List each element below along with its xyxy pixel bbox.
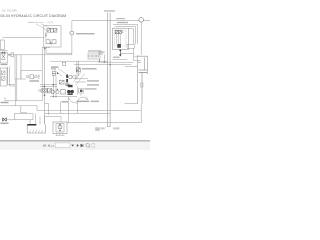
return left risers	[77, 101, 79, 113]
toolbar separator	[0, 139, 150, 142]
junction box right	[127, 44, 134, 48]
pump suction line	[50, 96, 77, 98]
lower return hose	[37, 106, 141, 111]
pilot bundle lines	[113, 59, 128, 61]
long hose mid	[50, 60, 108, 62]
label box control valve	[88, 53, 100, 59]
pilot bundle line c	[74, 64, 131, 66]
manifold side marks	[122, 31, 124, 32]
inline circle on hose	[8, 54, 10, 56]
right drop to drain	[140, 104, 142, 123]
manifold valve square b	[118, 30, 121, 33]
svg-text:No. TXL-045: No. TXL-045	[2, 9, 17, 13]
pump unit bottom dot	[59, 130, 60, 131]
manifold internal drops	[116, 34, 120, 44]
strainer feed vertical	[76, 86, 78, 95]
manifold valve arrows	[116, 31, 121, 34]
solenoid valve right of center	[76, 68, 80, 72]
toolbar zoom icon	[86, 144, 89, 147]
gauge circle a	[69, 75, 73, 79]
page background	[0, 0, 150, 150]
remote control valve cluster	[27, 75, 40, 79]
pilot bus lines	[40, 85, 57, 87]
travel motor hoses pair	[8, 67, 10, 87]
junction dot b	[53, 84, 54, 85]
manifold small rect	[15, 55, 21, 79]
toolbar first page button	[43, 144, 45, 147]
caption right of valve	[82, 68, 97, 70]
center label text	[51, 66, 59, 67]
valve V1 spool box left	[47, 29, 50, 33]
toolbar dropdown arrow	[71, 145, 74, 147]
cylinder bottom hose	[125, 103, 138, 105]
svg-text:Multifunction valve: Multifunction valve	[28, 21, 44, 24]
cylinder inner mark	[141, 83, 143, 87]
strainer dark mark	[80, 90, 82, 92]
twin pilot hoses	[77, 61, 79, 79]
center leader lines	[54, 69, 66, 77]
pilot elbow	[21, 78, 26, 80]
pilot vertical	[21, 71, 42, 79]
toolbar background	[0, 142, 150, 150]
left travel motor arrows	[2, 72, 5, 80]
pump unit base	[56, 134, 65, 136]
pump group box	[61, 90, 65, 94]
gray part label a	[95, 127, 100, 131]
coupler hose	[6, 119, 14, 121]
cylinder CYL1 piston	[139, 70, 148, 72]
valve V1 solenoid marks	[45, 32, 47, 38]
valve V1 sub line	[42, 47, 50, 49]
lower return hose b	[45, 112, 111, 114]
valve V1 dark speck	[44, 48, 46, 50]
coupler caption	[0, 123, 8, 124]
short bus b	[75, 81, 86, 83]
junction dot a	[44, 86, 45, 87]
cylinder CYL1 body	[138, 55, 148, 103]
manifold arrow down	[119, 50, 121, 57]
caption above label box	[88, 50, 102, 51]
pilot line pair down-left	[15, 55, 17, 106]
strainer arc	[78, 97, 88, 101]
check box beside divider	[48, 88, 52, 93]
coupler dark cluster	[2, 118, 6, 122]
divider outlet elbow	[45, 104, 49, 116]
pump group circle a	[51, 90, 55, 94]
pilot verticals center	[53, 76, 56, 97]
tank T1 dark top edge	[27, 124, 36, 126]
nested corner hose inner	[129, 29, 134, 45]
strainer caption	[77, 101, 90, 103]
supply lines down center pair	[42, 47, 44, 125]
leader diagonal a	[76, 74, 85, 86]
toolbar next button	[77, 144, 79, 147]
tank T1 hatch	[30, 130, 43, 133]
valve V1 block outline	[44, 26, 61, 47]
cooler box long	[15, 114, 34, 120]
hose to cylinder top	[125, 66, 137, 68]
coupler knot marks	[1, 51, 6, 54]
manifold M1 outline	[113, 28, 129, 49]
strainer head box	[79, 89, 84, 93]
left low hose extension	[21, 105, 37, 107]
leader line to valve V1 port	[41, 24, 53, 30]
toolbar zoom handle	[89, 147, 90, 148]
return lines tall pair	[108, 13, 111, 127]
cylinder port marks	[138, 61, 141, 63]
solenoid valve dark bar	[66, 75, 68, 78]
hose stub left	[0, 50, 8, 52]
remote control valve caption	[30, 80, 40, 82]
filter F1 drop line	[140, 22, 142, 55]
leader line to valve V1	[36, 24, 48, 31]
junction drop	[134, 48, 138, 60]
caption low left	[1, 102, 9, 103]
toolbar page box	[55, 143, 70, 148]
left auxiliary block	[0, 53, 7, 63]
branch hose	[121, 53, 134, 55]
caption to hydraulic tank	[76, 33, 95, 34]
flow divider box	[42, 88, 47, 93]
dark cluster upper pump	[68, 85, 73, 87]
left travel motor spool b	[1, 77, 5, 81]
pump unit top dot	[59, 124, 60, 125]
check box mark	[48, 89, 51, 92]
pump outlet curve	[69, 97, 78, 103]
tandem pump dark cluster	[67, 90, 74, 95]
long hose center-left	[11, 54, 72, 56]
toolbar extra icon	[92, 144, 95, 147]
valve box center	[59, 80, 64, 84]
check valve tick	[68, 32, 71, 34]
return pair foot	[108, 126, 111, 128]
pump unit outer	[53, 122, 67, 134]
junction dot manifold	[119, 50, 121, 52]
valve box center marks	[60, 81, 63, 84]
gray part label b	[101, 127, 105, 129]
left low hose b	[0, 106, 27, 113]
valve block left edge component	[0, 40, 4, 50]
pump unit triangles	[60, 126, 61, 129]
drain long hose	[67, 122, 141, 124]
pump unit inner	[56, 124, 64, 133]
leader diagonal b	[73, 72, 81, 83]
caption near corner hoses	[117, 22, 128, 23]
travel hose elbow	[8, 85, 15, 87]
manifold M1 dashed enclosure	[115, 30, 127, 46]
manifold valve square a	[115, 30, 118, 33]
suction junction dots	[53, 96, 54, 97]
label box drop	[99, 59, 101, 62]
nested corner hose outer	[113, 24, 138, 44]
top supply hose	[72, 20, 150, 22]
gauge circle b	[73, 75, 76, 78]
left low hose a	[5, 100, 42, 102]
drain vertical	[68, 97, 70, 123]
label box text	[89, 55, 92, 57]
toolbar prev button	[48, 144, 50, 146]
tank T1 walls	[27, 125, 45, 134]
pump inlet elbow	[45, 117, 62, 123]
dark speck cluster	[65, 84, 70, 85]
hose	[8, 54, 11, 56]
gray part label c	[113, 127, 119, 129]
flow divider circles	[43, 90, 45, 92]
pilot bundle drop	[103, 55, 105, 63]
short bus a	[75, 78, 88, 80]
caption below aux block	[1, 64, 8, 65]
left auxiliary block arrows	[1, 55, 5, 60]
valve V1 lower mark	[50, 42, 53, 45]
pilot bundle line b	[98, 61, 133, 63]
valve V1 arrows	[48, 29, 57, 32]
svg-text:(T) (P): (T) (P)	[48, 22, 54, 24]
riser to multifunction valve	[71, 21, 73, 55]
left travel motor block	[0, 68, 7, 86]
caption left of bundle	[99, 52, 105, 53]
pump unit circle	[58, 125, 62, 129]
hose to left travel motor	[3, 37, 44, 39]
pump feed vertical	[60, 102, 62, 114]
relief valve cluster marks	[52, 71, 55, 73]
nested corner hose middle	[115, 27, 136, 45]
toolbar last button	[81, 144, 83, 147]
bundle junction dots	[104, 62, 105, 63]
solenoid valve mark	[77, 68, 80, 71]
pump group circle b	[56, 90, 59, 93]
caption above return pair	[104, 10, 115, 12]
caption above manifold	[116, 18, 125, 19]
valve V1 lower spool left	[46, 40, 50, 44]
check valve small box	[11, 53, 14, 57]
divider ticks	[39, 89, 40, 92]
strainer neck	[80, 93, 82, 96]
valve V1 lower spool right	[52, 40, 56, 44]
enclosure box bottom	[46, 47, 72, 53]
filter F1 circle	[139, 18, 144, 23]
caption right of strainer	[85, 88, 97, 89]
cylinder CYL1 upper feed	[134, 55, 141, 57]
manifold spring cluster	[117, 44, 121, 48]
valve V1 spool box mid	[50, 29, 53, 33]
divider junction dot	[44, 95, 45, 96]
svg-text:05-04 HYDRAULIC CIRCUIT DIAGRA: 05-04 HYDRAULIC CIRCUIT DIAGRAM	[0, 14, 66, 18]
inline valve on mid hose	[62, 62, 65, 65]
caption above bundle right	[113, 57, 120, 58]
pump caption	[62, 101, 69, 103]
cylinder CYL1 rod	[141, 72, 143, 103]
inline check valve circle	[70, 31, 74, 35]
relief valve dot	[57, 73, 59, 75]
valve V1 spool box right	[54, 29, 57, 33]
tank feed drops	[30, 113, 44, 124]
left low riser	[4, 97, 6, 101]
caption rows right	[87, 80, 99, 81]
left travel motor spool a	[1, 71, 5, 74]
svg-text:1/1: 1/1	[50, 144, 54, 148]
